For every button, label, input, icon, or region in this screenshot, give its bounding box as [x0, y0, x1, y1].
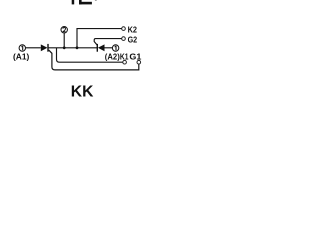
cropped label TL (bottom of letters at top edge) [72, 0, 97, 4]
svg-text:(A1): (A1) [13, 51, 29, 61]
terminal 1 circle [19, 45, 25, 51]
wire terminal 2 to rail [63, 33, 65, 48]
K2 terminal circle [122, 27, 126, 31]
svg-text:G1: G1 [129, 51, 141, 61]
svg-text:K1: K1 [120, 51, 129, 61]
junction dot at node 2 [63, 46, 66, 49]
svg-text:KK: KK [71, 84, 94, 101]
G1 terminal circle [137, 60, 141, 64]
K1 terminal circle [123, 60, 127, 64]
wire T2 anode to terminal 3 [105, 47, 113, 49]
terminal 3 digit [115, 46, 116, 50]
cathode rail wire [48, 47, 97, 49]
G1 gate wire of T1 [49, 50, 139, 70]
svg-text:K2: K2 [128, 25, 138, 35]
background [0, 0, 152, 106]
G2 gate wire of T2 [94, 39, 122, 46]
thyristor T2 (arrow left) [96, 44, 98, 52]
thyristor T1 (arrow right) [41, 44, 48, 51]
K2 wire [77, 29, 122, 48]
wire A1 to thyristor T1 anode [25, 47, 40, 49]
terminal 3 circle [112, 45, 118, 51]
svg-text:(A2): (A2) [105, 51, 120, 61]
junction dot at K2 tap [76, 46, 79, 49]
G2 terminal circle [122, 37, 126, 41]
svg-text:G2: G2 [128, 35, 138, 45]
terminal 2 digit [63, 28, 66, 32]
K1 wire [57, 48, 123, 62]
terminal 1 digit [21, 46, 22, 50]
terminal 2 circle [61, 27, 67, 33]
